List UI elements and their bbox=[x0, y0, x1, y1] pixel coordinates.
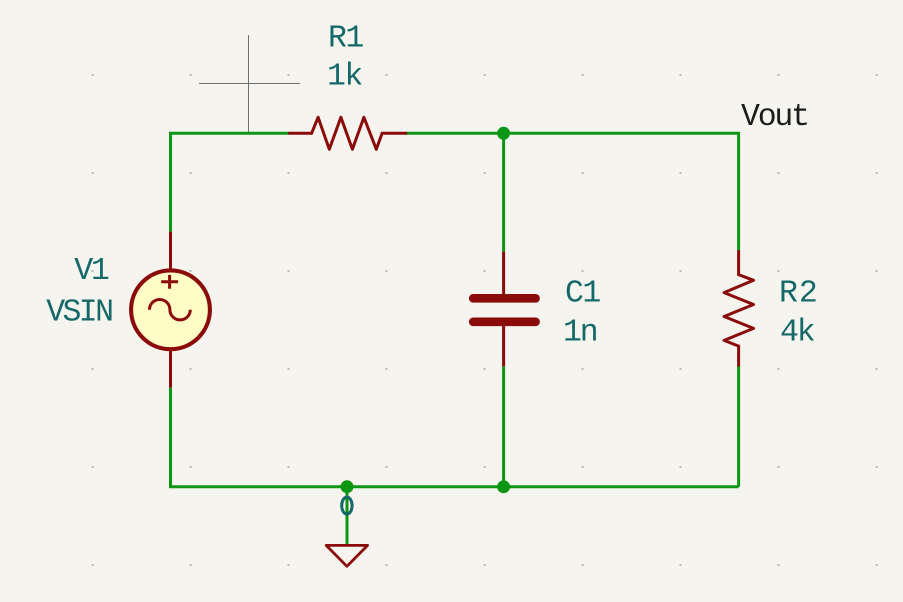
voltage source V1 bbox=[131, 232, 210, 388]
net name 0 bbox=[342, 497, 352, 514]
capacitor C1 bbox=[473, 252, 535, 367]
wire R2 bottom branch bbox=[737, 365, 740, 486]
plus mark bbox=[161, 280, 178, 283]
ground symbol bbox=[326, 545, 367, 566]
svg-text:1n: 1n bbox=[563, 315, 597, 350]
svg-text:C1: C1 bbox=[565, 277, 600, 312]
svg-text:V1: V1 bbox=[74, 254, 109, 289]
wire C1 bottom branch bbox=[502, 366, 505, 486]
junction at C1 bottom bbox=[497, 480, 510, 493]
svg-text:4k: 4k bbox=[780, 315, 815, 350]
wire ground stub bbox=[346, 487, 349, 546]
wire top rail R1 to Vout corner bbox=[406, 133, 739, 251]
junction at ground bbox=[341, 480, 354, 493]
svg-text:R1: R1 bbox=[328, 21, 363, 56]
wire C1 top branch bbox=[502, 133, 505, 251]
sine mark bbox=[150, 300, 191, 320]
resistor R2 bbox=[724, 252, 753, 366]
svg-text:R2: R2 bbox=[779, 276, 819, 311]
svg-text:Vout: Vout bbox=[741, 100, 808, 135]
wire top-left rail V1 to R1 bbox=[171, 133, 290, 231]
svg-text:VSIN: VSIN bbox=[46, 295, 112, 330]
wire V1 bottom to bottom rail bbox=[171, 388, 739, 487]
svg-text:1k: 1k bbox=[327, 60, 362, 95]
junction at C1 top bbox=[497, 127, 510, 140]
resistor R1 bbox=[290, 117, 406, 149]
cursor crosshair bbox=[199, 35, 300, 134]
